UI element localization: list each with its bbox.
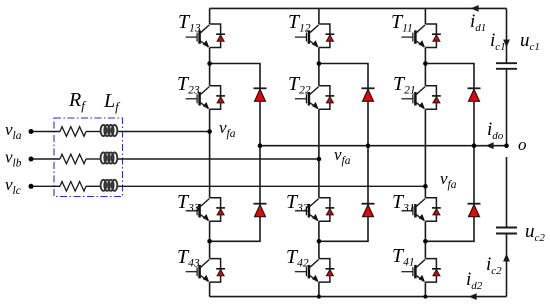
transistor T41 (401, 259, 440, 283)
transistor T42 (295, 259, 334, 283)
wire: leg 1 clamp branch upper (425, 64, 474, 146)
resistor Rf phase b (60, 154, 86, 164)
junction dot neutral leg1 (472, 143, 477, 148)
wire: leg 2 clamp branch lower (319, 146, 368, 242)
wire: phase c line (31, 185, 60, 187)
junction dot neutral leg3 (258, 143, 263, 148)
clamp diode leg2 lower (362, 204, 375, 217)
wire: leg 3 clamp branch lower (210, 146, 260, 242)
junction dot neutral leg2 (366, 143, 371, 148)
clamp diode leg2 upper (362, 88, 375, 101)
node o dot (504, 143, 509, 148)
inductor Lf phase a (101, 125, 118, 136)
transistor T11 (401, 24, 440, 48)
resistor Rf phase c (60, 182, 86, 192)
wire: leg 2 clamp branch upper (319, 64, 368, 146)
transistor T43 (186, 259, 225, 283)
wire: phase a line (31, 131, 60, 133)
transistor T12 (295, 24, 334, 48)
transistor T21 (401, 86, 440, 110)
wire: phase b line (31, 158, 60, 160)
junction dot bottom bus leg1 (423, 295, 427, 299)
clamp diode leg3 lower (254, 204, 267, 217)
terminal dot v_la (29, 129, 34, 134)
transistor T22 (295, 86, 334, 110)
clamp diode leg1 lower (468, 204, 481, 217)
wire: leg 3 column segments (209, 8, 211, 296)
wire: leg 3 clamp branch upper (210, 64, 260, 146)
wire: right bus C1 to node o (506, 69, 508, 146)
wire: top DC bus (210, 7, 507, 9)
junction dot leg2 upper (317, 61, 322, 66)
transistor T23 (186, 86, 225, 110)
node dot phase b / leg2 (317, 157, 322, 162)
arrow i_d2 on bottom bus (469, 293, 477, 300)
junction dot leg1 upper (423, 61, 428, 66)
node dot phase c / leg1 (423, 184, 428, 189)
junction dot leg3 upper (207, 61, 212, 66)
terminal dot v_lc (29, 184, 34, 189)
transistor T33 (186, 198, 225, 222)
filter box (blue dash-dot) (54, 118, 123, 197)
arrow i_c1 down right bus (503, 40, 510, 48)
inductor Lf phase c (101, 180, 118, 191)
junction dot leg2 lower (317, 239, 322, 244)
wire: leg 1 column segments (424, 8, 426, 296)
svg-text:o: o (518, 135, 527, 154)
junction dot bottom bus leg2 (317, 295, 321, 299)
wire: leg 1 clamp branch lower (425, 146, 474, 242)
capacitor C2 (496, 228, 517, 234)
arrow i_do on neutral bus (486, 142, 494, 149)
transistor T31 (401, 198, 440, 222)
clamp diode leg3 upper (254, 88, 267, 101)
arrow i_d1 on top bus (471, 5, 479, 12)
transistor T13 (186, 24, 225, 48)
clamp diode leg1 upper (468, 88, 481, 101)
resistor Rf phase a (60, 127, 86, 137)
transistor T32 (295, 198, 334, 222)
wire: right bus lower (C2 to bottom bus) (506, 234, 508, 297)
wire: right bus node o to capacitor C2 (with gap below o) (506, 157, 508, 228)
wire: bottom DC bus (210, 296, 507, 298)
arrow i_c2 up right bus (503, 254, 510, 262)
junction dot leg3 lower (207, 239, 212, 244)
wire: right bus upper (to capacitor C1) (506, 8, 508, 63)
capacitor C1 (496, 63, 517, 69)
terminal dot v_lb (29, 157, 34, 162)
wire: leg 2 column segments (318, 8, 320, 296)
junction dot leg1 lower (423, 239, 428, 244)
inductor Lf phase b (101, 153, 118, 164)
node dot phase a / leg3 (207, 129, 212, 134)
wire: neutral bus to node o (260, 145, 507, 147)
